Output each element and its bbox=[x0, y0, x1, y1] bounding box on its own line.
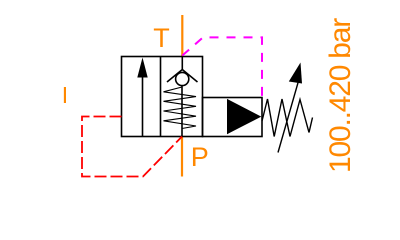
drain line (red dashed) bbox=[82, 117, 182, 177]
flow arrow head bbox=[137, 58, 147, 78]
wire: P port line (orange) bbox=[181, 137, 183, 177]
external spring bbox=[262, 99, 313, 137]
check valve stub bbox=[181, 57, 183, 71]
svg-text:I: I bbox=[62, 82, 68, 108]
main stage box bbox=[203, 98, 263, 137]
adjustment arrow shaft bbox=[278, 81, 299, 153]
flow triangle bbox=[227, 99, 261, 134]
wire: T port line (orange) bbox=[181, 15, 183, 57]
svg-text:T: T bbox=[153, 23, 170, 53]
svg-text:100..420 bar: 100..420 bar bbox=[324, 18, 357, 173]
flow arrow stem bbox=[142, 76, 144, 137]
valve body bbox=[122, 57, 203, 137]
check valve ball bbox=[176, 72, 189, 85]
adjustment arrow head bbox=[289, 63, 302, 84]
svg-text:P: P bbox=[191, 142, 209, 172]
check valve seat bbox=[167, 70, 198, 83]
pilot line (magenta dashed) bbox=[182, 37, 262, 97]
body divider bbox=[160, 57, 162, 137]
internal spring bbox=[164, 87, 197, 129]
poppet stem bbox=[181, 86, 183, 137]
